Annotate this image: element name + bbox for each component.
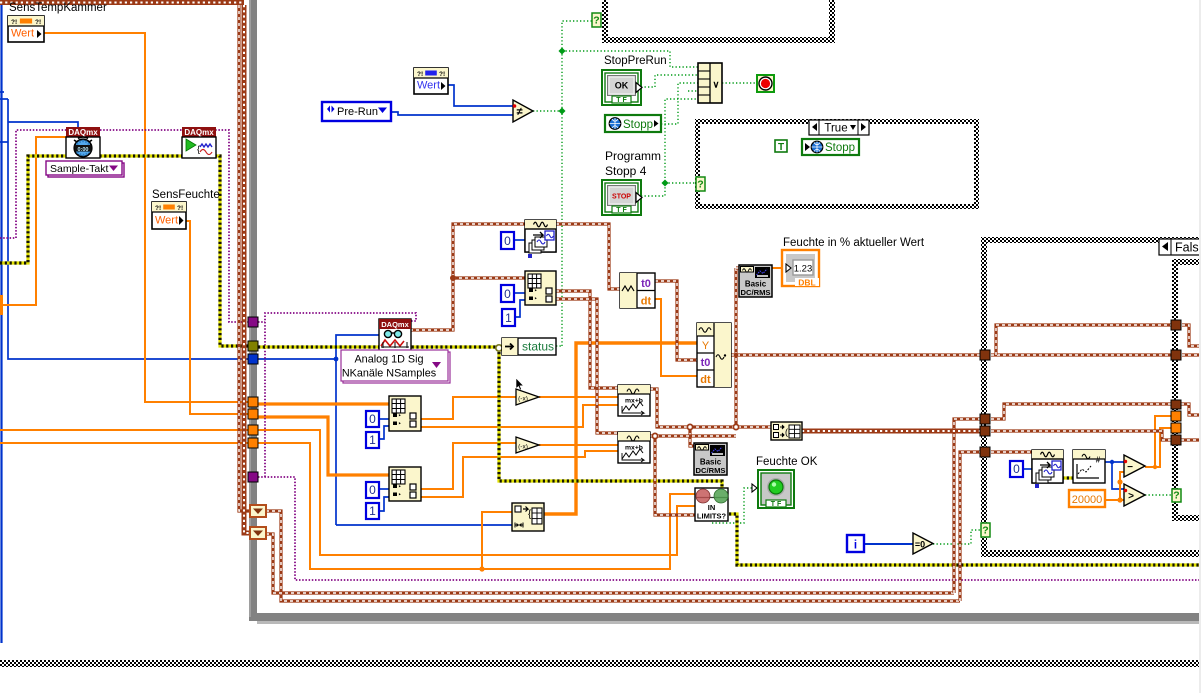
svg-text:=0: =0 (915, 540, 925, 550)
svg-text:{: { (197, 144, 200, 154)
numeric constant 0 (366, 411, 379, 427)
wire: green IN LIMITS to Feuchte OK (712, 488, 758, 523)
case structure False (right) (981, 237, 1201, 243)
tunnel orange 2 (248, 409, 258, 419)
local variable SensTempKammer Wert (8, 16, 44, 42)
svg-text:‣: ‣ (534, 289, 538, 295)
outer case bottom border (0, 660, 1201, 667)
svg-text:T: T (778, 142, 784, 153)
wire: brown shift register outputs to bottom rails (266, 511, 960, 601)
enum constant Pre-Run (322, 102, 391, 121)
wire: blue from tunnel to DAQmx Read / build array (258, 358, 336, 360)
svg-text:?: ? (982, 525, 988, 537)
svg-text:?: ? (697, 179, 703, 191)
wire: brown build waveform out net (734, 268, 737, 427)
waveform samples count node (1073, 450, 1105, 483)
express VI Basic DC/RMS 2 (694, 443, 727, 475)
svg-text:20000: 20000 (1072, 494, 1103, 506)
wire: brown index array outs to scales (556, 291, 618, 388)
numeric constant 1 (366, 503, 379, 519)
svg-text:Sample-Takt: Sample-Takt (50, 163, 108, 175)
svg-text:dt: dt (700, 374, 711, 386)
DAQmx Timing VI (66, 127, 100, 137)
svg-text:Pre-Run: Pre-Run (337, 106, 378, 118)
wire: orange tunnel2 to index array 4 (258, 417, 389, 475)
tunnel orange 3 (248, 425, 258, 435)
boolean OK button terminal StopPreRun (602, 70, 641, 105)
tunnels on False case left edge (980, 350, 990, 360)
numeric indicator DBL Feuchte (782, 250, 819, 286)
svg-text:?!: ?! (439, 71, 445, 78)
compound arithmetic OR node (698, 63, 722, 103)
numeric constant 0 (501, 232, 514, 249)
tunnel orange 4 (248, 438, 258, 448)
svg-text:StopPreRun: StopPreRun (604, 55, 667, 67)
svg-text:DC/RMS: DC/RMS (741, 288, 771, 297)
wire: olive error from IN LIMITS to right edge rail (729, 514, 1201, 565)
index waveform array node (right case) (1032, 450, 1063, 483)
wire: green STOP button to OR and True case selector (641, 99, 698, 196)
shift register upper (250, 505, 266, 517)
inner case structure (1172, 259, 1201, 265)
local variable Wert (blue) (414, 68, 448, 94)
svg-text:0: 0 (369, 483, 376, 497)
svg-text:?!: ?! (155, 205, 161, 212)
svg-text:LIMITS?: LIMITS? (697, 512, 727, 521)
svg-text:?!: ?! (11, 19, 17, 26)
svg-text:Programm: Programm (605, 149, 661, 163)
svg-text:1.23: 1.23 (794, 264, 813, 275)
case label True (809, 120, 869, 135)
unbundle by name status (502, 338, 556, 355)
index waveform array node (top) (525, 220, 556, 252)
svg-text:DC/RMS: DC/RMS (696, 466, 726, 475)
svg-text:∨: ∨ (713, 80, 720, 91)
reshape array node (771, 422, 802, 440)
svg-text:?!: ?! (417, 71, 423, 78)
svg-text:DAQmx: DAQmx (184, 128, 214, 137)
index array node 3 (389, 396, 421, 431)
numeric constant 1 (502, 309, 515, 326)
polymorphic VI selector Analog 1D Sig (343, 352, 450, 383)
boolean LED indicator Feuchte OK (758, 470, 794, 508)
svg-text:0: 0 (369, 412, 376, 426)
svg-text:0: 0 (504, 287, 511, 301)
wire: blue i to equal-zero (864, 543, 913, 545)
interleave arrays node (512, 503, 544, 531)
case label False (1159, 239, 1201, 255)
svg-text:Stopp: Stopp (623, 119, 653, 131)
express VI Basic DC/RMS 1 (739, 265, 772, 297)
svg-text:0: 0 (1013, 462, 1020, 476)
wire: blue const feeders index arrays (514, 239, 525, 241)
negate node 1 (516, 389, 539, 405)
svg-text:dt: dt (641, 296, 652, 308)
wire: olive link between waveform nodes (1062, 476, 1073, 479)
while loop border gray (249, 0, 257, 621)
wire: brown verticals to shift registers (239, 5, 250, 511)
tunnel orange 1 (248, 397, 258, 407)
round stop LED indicator (757, 75, 774, 92)
tunnel purple 2 (248, 472, 258, 482)
Sample-Takt ring constant (48, 163, 124, 177)
wire: orange tunnel1 to index array 3 (258, 402, 389, 405)
svg-text:Wert: Wert (11, 28, 34, 40)
tunnel blue (248, 354, 258, 364)
global variable Stopp (write) (802, 139, 859, 155)
wire: green equal-zero to case selector (933, 530, 981, 544)
tunnel purple task (248, 317, 258, 327)
svg-text:DBL: DBL (798, 278, 815, 288)
svg-text:≠: ≠ (516, 106, 522, 118)
svg-text:status: status (522, 340, 554, 354)
svg-text:>: > (1128, 491, 1134, 502)
subtract node (1124, 455, 1145, 477)
svg-text:Stopp 4: Stopp 4 (605, 164, 647, 178)
global variable Stopp (read) (605, 115, 661, 132)
wire: blue Pre-Run to not-equal (391, 112, 513, 115)
wire: green status/not-equal boolean net to case selector and OR (533, 110, 562, 112)
svg-text:Analog 1D Sig: Analog 1D Sig (354, 354, 423, 366)
svg-text:NKanäle NSamples: NKanäle NSamples (342, 368, 437, 380)
wire: brown index waveform out to t0/dt (556, 224, 620, 289)
svg-text:t0: t0 (641, 278, 651, 290)
numeric constant 1 (366, 432, 379, 448)
wire: brown t0 to build waveform (655, 281, 697, 360)
svg-text:T F: T F (616, 97, 627, 104)
in range node IN LIMITS? (695, 488, 728, 521)
wire: green OR to stop LED (722, 82, 757, 84)
svg-text:T F: T F (616, 207, 627, 214)
wire: orange tunnel3 to IN LIMITS upper (258, 430, 697, 555)
wire: orange negate2 to scale2 (539, 444, 618, 446)
wire: orange thick interleaved array to build waveform Y (544, 343, 697, 514)
svg-text:T F: T F (771, 501, 782, 508)
wire: purple DAQmx task wire left frame (0, 130, 249, 322)
DAQmx Read VI (379, 319, 411, 351)
wire: orange negate1 to scale1 (539, 396, 618, 398)
index array node 4 (389, 467, 421, 501)
svg-text:(-x): (-x) (518, 396, 528, 403)
iteration terminal i (847, 535, 864, 552)
svg-text:0: 0 (504, 234, 511, 248)
svg-text:DAQmx: DAQmx (68, 128, 98, 137)
svg-text:SensFeuchte: SensFeuchte (152, 189, 220, 201)
selector tunnel ? top case (592, 13, 601, 27)
mouse cursor (516, 378, 524, 390)
svg-text:Feuchte in % aktueller Wert: Feuchte in % aktueller Wert (783, 237, 925, 249)
wire: brown top frame wire (0, 0, 244, 5)
wire: orange index4 outputs to negate2 and scale2 (421, 443, 516, 489)
svg-text:(: ( (785, 427, 788, 437)
svg-text:‣: ‣ (534, 297, 538, 303)
not-equal node (513, 100, 533, 122)
svg-text:?!: ?! (35, 19, 41, 26)
scale node mx+b 2 (618, 432, 650, 463)
svg-text:Wert: Wert (155, 215, 178, 227)
svg-text:True: True (824, 123, 847, 135)
local variable SensFeuchte Wert (152, 202, 186, 229)
wire: green Stopp global to OR (661, 83, 698, 124)
svg-text:?: ? (593, 15, 599, 27)
wire: green True const to Stopp write (786, 145, 802, 147)
wire: orange index3 outputs to negate1 and scale1 (421, 397, 516, 419)
svg-text:1: 1 (505, 311, 512, 325)
svg-text:Feuchte OK: Feuchte OK (756, 456, 818, 468)
negate node 2 (516, 437, 539, 453)
DAQmx Start VI (182, 127, 216, 137)
case structure True (695, 119, 979, 209)
svg-text:Stopp: Stopp (825, 142, 855, 154)
greater node (1124, 484, 1145, 506)
svg-text:mx+b: mx+b (625, 445, 643, 452)
svg-text:‣: ‣ (398, 414, 402, 420)
svg-text:Y: Y (702, 340, 710, 352)
svg-text:SensTempKammer: SensTempKammer (9, 2, 107, 14)
svg-text:1: 1 (369, 504, 376, 518)
wire: left frame blue vertical (0, 0, 2, 643)
numeric constant 0 (501, 285, 514, 302)
numeric constant 0 (right case) (1010, 461, 1023, 477)
svg-text:−: − (1127, 462, 1133, 473)
svg-text:t0: t0 (701, 357, 711, 369)
shift register lower (250, 527, 266, 539)
wire: brown reshape out to case tunnel (802, 429, 980, 434)
svg-text:OK: OK (615, 81, 629, 91)
wire: orange SensFeuchte Wert to tunnel (185, 221, 249, 414)
True constant (775, 140, 787, 152)
index array node (channels) (525, 271, 556, 305)
wire: orange 20000 to greater and subtract (1105, 499, 1124, 501)
wire: olive error wire inside loop to status (258, 345, 502, 348)
wire: brown DAQmx Read error out net (410, 224, 525, 330)
numeric constant 0 (366, 482, 379, 498)
wire: orange limit wires entering from left edge (0, 429, 249, 431)
get waveform components node t0 dt (620, 273, 655, 308)
build waveform node (697, 323, 731, 387)
wire: orange SensTempKammer Wert to tunnel (44, 33, 249, 402)
wire: orange DAQmx Timing rate to left edge (0, 137, 66, 305)
wire: orange subtract out to inner tunnel (1145, 416, 1173, 467)
svg-text:(-x): (-x) (518, 444, 528, 451)
svg-text:False: False (1175, 241, 1201, 255)
svg-text:?!: ?! (177, 205, 183, 212)
scale node mx+b 1 (618, 385, 650, 416)
svg-text:?: ? (1173, 490, 1179, 502)
svg-text:#: # (1096, 456, 1101, 465)
svg-text:Wert: Wert (417, 80, 440, 92)
wire: brown wires right of inner tunnels (1182, 325, 1201, 346)
tunnels on inner case left edge (1171, 320, 1181, 330)
svg-text:mx+b: mx+b (625, 398, 643, 405)
wire: blue sample-clock net to DAQmx Timing and loop tunnel (8, 99, 249, 359)
window edge right (1199, 0, 1201, 693)
wire: orange DC/RMS to indicator (772, 267, 782, 269)
tunnel olive error (248, 341, 258, 351)
wire: green OK button to OR (641, 75, 698, 87)
numeric constant 20000 (1069, 490, 1105, 507)
svg-text:i: i (854, 540, 857, 552)
wire: orange tunnel4 to IN LIMITS lower / build array branch (258, 443, 697, 569)
wire: brown scale1 out along y427 to reshape node (650, 389, 771, 427)
case structure top (partially off-screen) (602, 0, 608, 43)
svg-text:0:00: 0:00 (77, 147, 88, 153)
wire: brown wires inside False case (991, 353, 1171, 356)
selector tunnel ? True case (696, 177, 705, 191)
svg-text:1: 1 (369, 433, 376, 447)
wire: purple task wire inside loop around DAQmx Read (258, 321, 265, 323)
wire: blue num-samples to subtract and greater (1021, 468, 1032, 470)
boolean STOP button terminal Programm Stopp 4 (602, 180, 641, 215)
wire: olive error wire left frame (0, 156, 249, 346)
wire: blue cluster stubs left edge (0, 91, 4, 93)
svg-text:DAQmx: DAQmx (381, 320, 409, 329)
svg-text:STOP: STOP (612, 194, 631, 201)
svg-text:‣: ‣ (398, 422, 402, 428)
wire: blue Wert to not-equal (447, 85, 513, 106)
equal to zero node (913, 533, 933, 554)
wire: brown scale2 out to IN LIMITS (650, 434, 736, 437)
svg-text:‣: ‣ (398, 493, 402, 499)
wire: green greater to inner case selector (1145, 494, 1172, 496)
wire: orange dt to build waveform (655, 299, 697, 376)
svg-text:‣: ‣ (398, 485, 402, 491)
